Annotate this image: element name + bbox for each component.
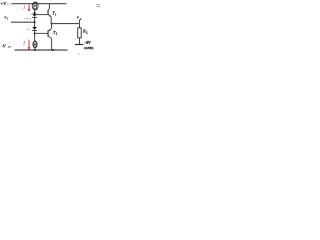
svg-text:i: i — [7, 17, 8, 21]
svg-text:I: I — [22, 41, 25, 47]
svg-text:EE: EE — [7, 45, 12, 49]
svg-text:L: L — [85, 30, 88, 34]
svg-text:(GND): (GND) — [84, 46, 93, 50]
svg-text:v: v — [78, 51, 80, 56]
svg-text:R: R — [82, 28, 86, 33]
svg-text:I: I — [22, 5, 25, 11]
svg-text:0V: 0V — [86, 41, 91, 45]
